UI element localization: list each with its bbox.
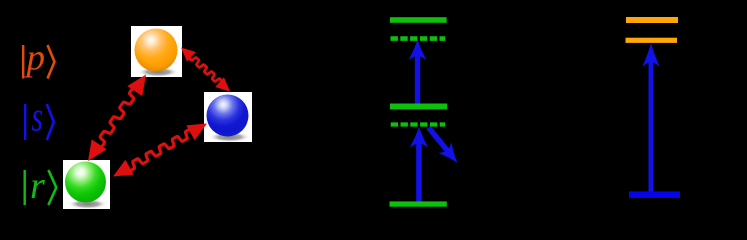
wavy photon arrow p-s (181, 48, 230, 92)
state s: blue ball (204, 92, 252, 142)
wavy photon arrow p-r (88, 75, 146, 162)
node label |p> (22, 38, 55, 79)
right diagram: single pump arrow (649, 60, 654, 194)
svg-text:s: s (32, 95, 44, 141)
right level line ground (blue) (629, 191, 680, 198)
wavy photon arrow r-s (113, 124, 207, 177)
level line middle solid (green) (390, 104, 447, 110)
state p: orange ball (131, 26, 182, 77)
level line top dashed (green virtual) (391, 36, 446, 41)
state r: green ball (63, 160, 110, 209)
node label |s> (24, 95, 54, 141)
svg-text:p: p (24, 38, 46, 79)
level line middle dashed (green virtual) (391, 122, 445, 126)
right level line second (orange) (626, 38, 678, 43)
node label |r> (24, 165, 57, 207)
level line bottom solid (green) (390, 201, 447, 206)
middle diagram: decay diagonal arrow (429, 128, 449, 152)
middle diagram: upper pump arrow (415, 54, 420, 103)
middle diagram: lower pump arrow (416, 142, 422, 202)
level line top solid (green) (390, 17, 447, 23)
svg-text:r: r (30, 165, 45, 207)
right level line top (orange) (626, 17, 678, 23)
